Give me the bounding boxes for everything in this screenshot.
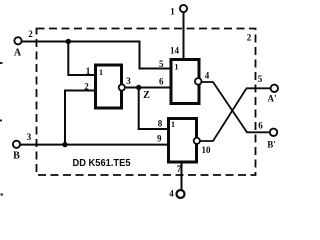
- svg-text:2: 2: [247, 33, 252, 43]
- power terminal 1: [180, 5, 187, 12]
- gate U3 bottom NOR: [169, 119, 197, 163]
- wire Z branch to bottom gate pin 8: [139, 88, 168, 130]
- node junction Z: [136, 85, 141, 90]
- wire output 4 crossover to terminal 6: [202, 82, 270, 132]
- inversion bubble U2: [195, 78, 202, 85]
- gate U2 top NOR: [171, 60, 199, 104]
- svg-text:A': A': [268, 94, 277, 104]
- wire B horizontal to bottom gate pin 9: [20, 144, 168, 146]
- svg-text:A: A: [14, 48, 22, 59]
- node junction A: [66, 39, 71, 44]
- svg-text:B': B': [267, 140, 276, 150]
- svg-text:3: 3: [27, 132, 32, 142]
- node junction B: [62, 142, 67, 147]
- svg-text:6: 6: [258, 121, 263, 131]
- svg-text:8: 8: [158, 119, 163, 129]
- wire A branch to gate pin 1: [68, 42, 95, 76]
- wire B branch to gate pin 2: [65, 91, 95, 145]
- ground terminal wire pin 7: [181, 162, 183, 191]
- svg-text:6: 6: [159, 77, 164, 87]
- svg-text:4: 4: [205, 71, 210, 81]
- svg-text:1: 1: [175, 63, 179, 72]
- terminal 6 output: [270, 129, 277, 136]
- svg-text:B: B: [13, 151, 20, 162]
- svg-text:DD K561.TE5: DD K561.TE5: [73, 158, 131, 169]
- svg-text:5: 5: [159, 59, 164, 69]
- wire Z output to top gate pin 6: [125, 87, 170, 89]
- svg-text:1: 1: [86, 66, 91, 76]
- gate U1 middle NOR: [96, 65, 122, 108]
- svg-text:1: 1: [170, 7, 175, 17]
- svg-text:14: 14: [170, 46, 180, 56]
- svg-text:1: 1: [171, 120, 175, 129]
- svg-text:3: 3: [126, 76, 131, 86]
- svg-text:1: 1: [99, 68, 103, 77]
- wire A horizontal to top gate pin 5: [22, 42, 171, 69]
- inversion bubble U3: [194, 138, 200, 144]
- ground terminal 4: [177, 190, 185, 198]
- terminal B: [13, 141, 20, 148]
- wire output 10 crossover to terminal 5: [200, 88, 271, 141]
- scan specks (noise): [0, 62, 3, 64]
- svg-text:2: 2: [84, 82, 89, 92]
- svg-text:4: 4: [169, 189, 174, 199]
- IC boundary dashed box DD: [37, 29, 256, 176]
- terminal A: [14, 37, 21, 44]
- terminal 5 output: [271, 85, 278, 92]
- svg-text:10: 10: [202, 145, 212, 155]
- svg-text:5: 5: [258, 74, 263, 84]
- power terminal wire pin 14: [183, 12, 185, 59]
- inversion bubble U1: [119, 84, 125, 90]
- svg-text:9: 9: [157, 134, 162, 144]
- svg-text:2: 2: [28, 29, 33, 39]
- svg-text:Z: Z: [143, 90, 150, 101]
